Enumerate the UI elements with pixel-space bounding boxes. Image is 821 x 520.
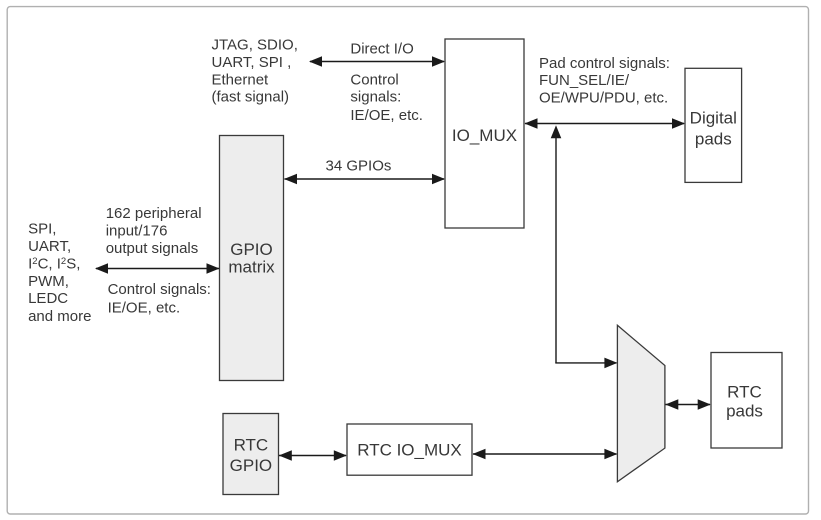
svg-text:IO_MUX: IO_MUX — [452, 126, 517, 145]
wire vertical from mux up to pad-control line — [551, 125, 562, 363]
svg-text:Control: Control — [350, 71, 398, 88]
text Control signals IE/OE (top) — [350, 71, 423, 124]
arrow 34 GPIOs (GPIO matrix to IO_MUX) — [284, 174, 445, 185]
svg-text:Digital: Digital — [690, 109, 737, 128]
text Pad control signals — [539, 55, 670, 107]
svg-text:Pad control signals:: Pad control signals: — [539, 55, 670, 72]
text JTAG/SDIO fast-signal list — [212, 37, 298, 106]
svg-text:GPIO: GPIO — [230, 456, 273, 475]
svg-text:pads: pads — [726, 401, 763, 420]
svg-text:IE/OE, etc.: IE/OE, etc. — [350, 107, 423, 124]
svg-text:GPIO: GPIO — [230, 240, 273, 259]
svg-text:RTC: RTC — [727, 383, 762, 402]
svg-text:PWM,: PWM, — [28, 273, 69, 290]
wire elbow into mux trapezoid — [555, 358, 617, 369]
svg-text:Direct I/O: Direct I/O — [350, 40, 413, 57]
text 162 peripheral input/176 output signals — [106, 205, 202, 257]
box RTC IO_MUX — [347, 424, 472, 475]
svg-text:JTAG, SDIO,: JTAG, SDIO, — [212, 37, 298, 54]
svg-text:162 peripheral: 162 peripheral — [106, 205, 202, 222]
arrow RTC GPIO to RTC IO_MUX — [279, 450, 347, 461]
svg-text:Ethernet: Ethernet — [212, 71, 270, 88]
box RTC GPIO — [223, 414, 279, 495]
arrow RTC IO_MUX to mux trapezoid — [473, 449, 618, 460]
box Digital pads — [685, 68, 742, 182]
text Control signals IE/OE (left) — [108, 281, 211, 316]
svg-text:UART,: UART, — [28, 238, 71, 255]
svg-text:LEDC: LEDC — [28, 290, 68, 307]
arrow pad control (IO_MUX to Digital pads) — [525, 118, 686, 129]
svg-text:input/176: input/176 — [106, 223, 168, 240]
text SPI UART I2C I2S PWM LEDC list — [28, 221, 91, 326]
svg-text:IE/OE, etc.: IE/OE, etc. — [108, 299, 181, 316]
svg-text:and more: and more — [28, 308, 91, 325]
arrow mux trapezoid to RTC pads — [665, 399, 710, 410]
svg-text:SPI,: SPI, — [28, 221, 56, 238]
svg-text:(fast signal): (fast signal) — [212, 89, 290, 106]
box GPIO matrix — [220, 136, 284, 381]
box RTC pads — [711, 353, 782, 449]
svg-text:output signals: output signals — [106, 240, 199, 257]
arrow 162 peripheral (left text to GPIO matrix) — [95, 263, 220, 274]
mux trapezoid — [617, 325, 665, 482]
svg-text:UART, SPI ,: UART, SPI , — [212, 54, 292, 71]
svg-text:RTC IO_MUX: RTC IO_MUX — [357, 441, 462, 460]
svg-text:RTC: RTC — [234, 435, 269, 454]
svg-text:pads: pads — [695, 129, 732, 148]
svg-text:34 GPIOs: 34 GPIOs — [326, 158, 392, 175]
svg-text:OE/WPU/PDU, etc.: OE/WPU/PDU, etc. — [539, 90, 668, 107]
arrow Direct I/O (text block to IO_MUX) — [309, 56, 445, 67]
box IO_MUX — [445, 39, 524, 228]
svg-text:FUN_SEL/IE/: FUN_SEL/IE/ — [539, 72, 630, 89]
svg-text:matrix: matrix — [228, 257, 275, 276]
svg-text:signals:: signals: — [350, 89, 401, 106]
svg-text:Control signals:: Control signals: — [108, 281, 211, 298]
